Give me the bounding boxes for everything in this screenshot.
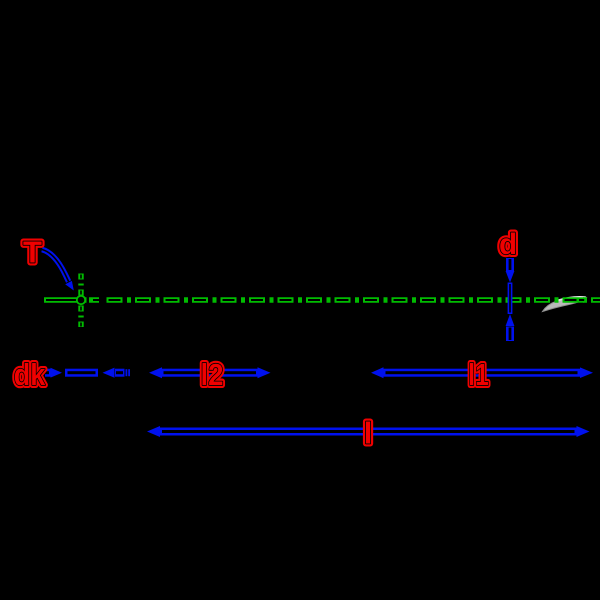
- svg-text:d: d: [499, 228, 517, 261]
- svg-text:l2: l2: [201, 357, 224, 392]
- svg-text:l: l: [364, 416, 373, 451]
- svg-text:T: T: [23, 234, 42, 269]
- svg-text:l1: l1: [468, 357, 489, 392]
- svg-text:dk: dk: [14, 357, 46, 392]
